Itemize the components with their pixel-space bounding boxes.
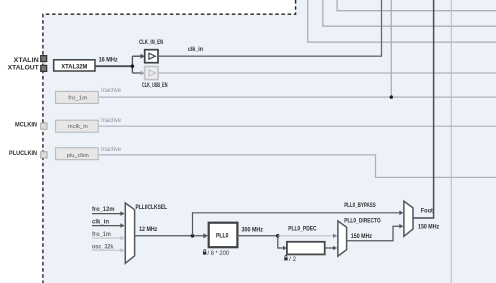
wire branch to buffers	[132, 56, 141, 73]
wire mux1 out 12 MHz	[135, 235, 204, 237]
mux PLL0_PDEC	[338, 221, 347, 256]
svg-text:MCLKIN: MCLKIN	[15, 122, 37, 128]
svg-text:clk_in: clk_in	[92, 220, 109, 226]
mux PLL0CLKSEL	[125, 203, 134, 263]
wire clk_in stub	[92, 225, 121, 227]
junction XTAL	[131, 64, 135, 68]
arrowhead into CLK_USB_EN	[141, 71, 145, 76]
svg-text:/ 8 * 200: / 8 * 200	[208, 251, 230, 257]
wire fro_12m stub	[92, 213, 121, 215]
svg-text:mclk_in: mclk_in	[68, 124, 88, 130]
wire into PDEC block	[278, 236, 283, 248]
svg-text:CLK_USB_EN: CLK_USB_EN	[142, 83, 168, 89]
block plu_clkin	[56, 148, 99, 160]
lock icon PLL0	[203, 250, 206, 255]
bus wire L2	[323, 0, 496, 26]
svg-text:clk_in: clk_in	[188, 47, 203, 53]
wire PDEC out	[325, 247, 334, 249]
svg-text:/ 2: / 2	[289, 257, 297, 263]
arrowhead fro_12m	[120, 211, 124, 216]
arrowhead bypass upper	[399, 211, 403, 216]
svg-text:fro_1m: fro_1m	[92, 232, 111, 238]
pin PLUCLKIN	[41, 152, 47, 158]
wire XTAL32M out	[95, 65, 132, 67]
block mclk_in	[56, 120, 99, 132]
wire mclk_in out	[99, 125, 496, 127]
bus wire L1	[308, 0, 496, 42]
svg-text:Fout: Fout	[421, 208, 433, 214]
wire osc_32k stub	[92, 249, 121, 251]
mux PLL0_BYPASS	[404, 201, 413, 236]
wire pdec mux out	[347, 226, 400, 241]
vertical wire right edge	[450, 0, 452, 283]
XTAL32M block	[54, 60, 95, 71]
svg-text:PLL0: PLL0	[216, 232, 229, 239]
svg-text:XTALOUT: XTALOUT	[8, 65, 39, 71]
junction fro_1m	[390, 95, 393, 98]
arrowhead into PDEC block	[283, 246, 287, 250]
arrowhead PLL0 in	[203, 233, 208, 238]
block PLL0_PDEC	[287, 242, 325, 255]
wire fro_1m stub	[92, 237, 121, 239]
svg-text:150 MHz: 150 MHz	[418, 225, 439, 231]
buffer CLK_IN_EN	[145, 50, 158, 63]
pin XTALOUT	[41, 65, 47, 71]
pin XTALIN	[41, 56, 47, 62]
svg-text:osc_32k: osc_32k	[92, 244, 114, 250]
arrowhead clk_in	[120, 223, 124, 228]
svg-text:PLL0CLKSEL: PLL0CLKSEL	[136, 205, 168, 211]
arrowhead fro_1m	[120, 236, 124, 241]
svg-text:CLK_IN_EN: CLK_IN_EN	[139, 40, 163, 46]
buffer CLK_USB_EN	[145, 67, 158, 80]
svg-text:PLL0_PDEC: PLL0_PDEC	[288, 226, 317, 232]
wire clk_in	[158, 0, 382, 56]
junction PLL0 in	[191, 234, 195, 238]
svg-text:Inactive: Inactive	[101, 118, 122, 124]
arrowhead PDEC direct	[333, 234, 337, 239]
svg-text:16 MHz: 16 MHz	[99, 58, 118, 64]
svg-text:12 MHz: 12 MHz	[139, 227, 157, 233]
svg-text:fro_12m: fro_12m	[92, 207, 115, 213]
wire PLL0 out 300MHz	[237, 235, 277, 237]
svg-text:XTALIN: XTALIN	[14, 58, 39, 64]
wire Fout	[413, 0, 434, 218]
svg-text:PLUCLKIN: PLUCLKIN	[9, 151, 37, 157]
arrowhead into CLK_IN_EN	[141, 54, 145, 59]
svg-text:Inactive: Inactive	[101, 147, 122, 153]
svg-text:300 MHz: 300 MHz	[242, 227, 264, 233]
svg-text:Inactive: Inactive	[101, 88, 122, 94]
wire fro_1m out	[99, 96, 496, 98]
lock icon PDEC	[284, 255, 287, 260]
chip boundary dashed border	[43, 0, 296, 283]
svg-text:PLL0_BYPASS: PLL0_BYPASS	[344, 203, 376, 209]
arrowhead bypass lower	[399, 224, 403, 229]
svg-text:PLL0_DIRECTO: PLL0_DIRECTO	[344, 218, 381, 224]
wire plu_clkin out	[99, 155, 496, 178]
outside chip white top strip	[43, 0, 296, 14]
arrowhead PDEC out	[333, 246, 337, 250]
arrowhead osc_32k	[120, 248, 124, 253]
svg-text:fro_1m: fro_1m	[68, 95, 87, 101]
wire PLL0 bypass up	[193, 213, 400, 236]
junction PDEC	[276, 234, 280, 238]
svg-text:150 MHz: 150 MHz	[351, 234, 372, 240]
block PLL0	[209, 223, 238, 248]
pin MCLKIN	[41, 123, 47, 129]
wire clk_usb out	[158, 72, 496, 74]
svg-text:XTAL32M: XTAL32M	[61, 63, 87, 70]
outside chip white left strip	[0, 0, 43, 283]
wire PDEC direct (inactive)	[278, 235, 333, 237]
vertical wire fro_1m tap	[390, 0, 392, 97]
block fro_1m	[56, 91, 99, 103]
svg-text:plu_clkin: plu_clkin	[67, 153, 89, 159]
bus wire L3 top	[337, 0, 496, 11]
